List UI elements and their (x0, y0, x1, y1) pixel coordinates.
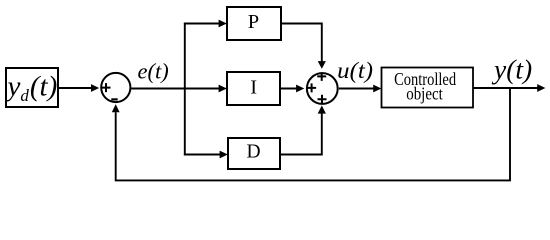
wire yd to sum1 (58, 87, 91, 89)
svg-text:e(t): e(t) (138, 59, 169, 84)
svg-text:u(t): u(t) (337, 58, 373, 83)
minus sign S1 (111, 98, 117, 100)
summing junction S1 (101, 73, 130, 102)
block yd (input reference) (5, 68, 59, 107)
summing junction S2 (307, 73, 338, 104)
arrowhead output (537, 84, 545, 92)
branch vertical wire (184, 23, 186, 156)
wire P to sum2 (281, 24, 322, 62)
arrowhead into P (219, 20, 227, 28)
svg-text:yd(t): yd(t) (5, 71, 58, 106)
plus sign S2 left (307, 83, 316, 92)
svg-text:object: object (406, 84, 443, 104)
block I (227, 72, 280, 105)
arrowhead into D (220, 151, 228, 159)
wire I to sum2 (280, 88, 296, 90)
arrowhead into I (219, 85, 227, 93)
svg-text:y(t): y(t) (491, 54, 532, 85)
arrowhead into sum2 left (296, 85, 304, 93)
svg-text:D: D (247, 142, 261, 163)
feedback wire (116, 88, 510, 180)
block P (227, 7, 281, 40)
plus sign S2 top (317, 72, 326, 81)
arrowhead into sum1 left (91, 84, 99, 92)
block D (228, 138, 280, 169)
plus sign S2 bottom (318, 95, 327, 104)
svg-text:P: P (248, 11, 259, 33)
arrowhead into sum2 bottom (318, 105, 326, 113)
wire branch to D (184, 154, 220, 156)
wire D to sum2 (281, 113, 322, 155)
wire sum2 to controlled object (339, 88, 374, 90)
plus sign S1 (102, 83, 111, 92)
block controlled object (382, 68, 474, 108)
wire branch to P (184, 23, 219, 25)
wire controlled object to output (473, 87, 538, 89)
wire sum1 to I (with branch node) (131, 88, 219, 90)
arrowhead into controlled object (373, 85, 381, 93)
svg-text:I: I (250, 77, 257, 99)
arrowhead feedback into sum1 bottom (112, 104, 120, 112)
arrowhead into sum2 top (318, 61, 326, 69)
